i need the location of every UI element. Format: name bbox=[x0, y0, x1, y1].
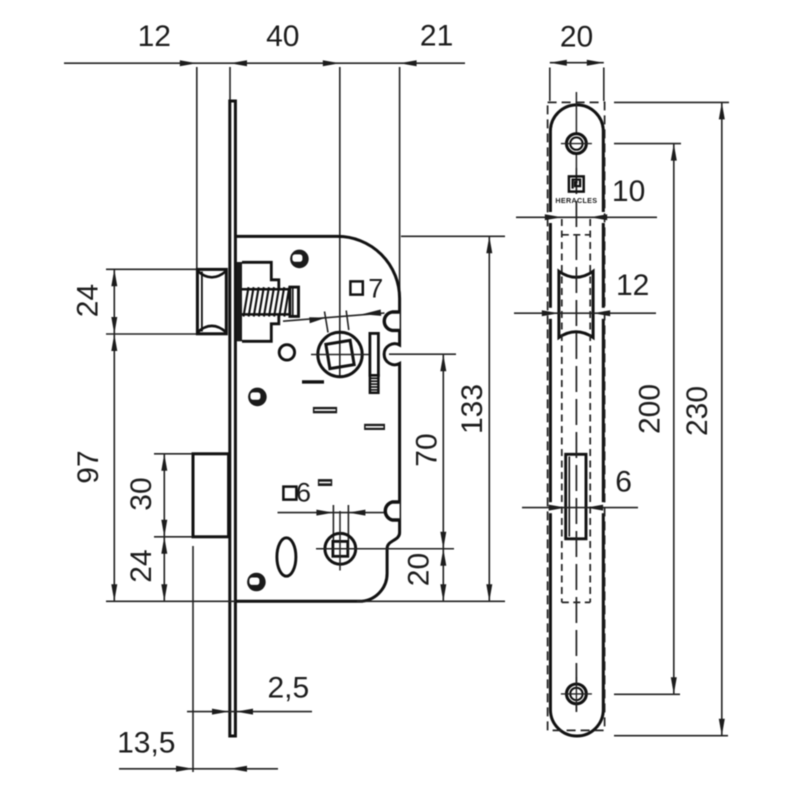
extension case bottom left bbox=[106, 600, 236, 602]
left dims: extension latch top bbox=[106, 268, 196, 270]
svg-text:20: 20 bbox=[403, 553, 436, 586]
svg-text:24: 24 bbox=[125, 549, 158, 582]
screw boss upper on case back bbox=[384, 312, 399, 330]
logo square bbox=[569, 176, 584, 191]
centreline lower spindle horizontal / extension for 70-20 dims bbox=[316, 548, 454, 550]
dim 230 extension bottom bbox=[614, 735, 728, 737]
square-end plate dashed outline bbox=[548, 102, 605, 730]
dim 7 arrow right-pointing bbox=[309, 316, 326, 323]
top screw hole bbox=[567, 134, 587, 154]
extension deadbolt bottom bbox=[154, 536, 192, 538]
bar B bbox=[364, 424, 385, 430]
latch tail bracket bottom bbox=[242, 314, 279, 341]
dim line 70/20 bbox=[442, 354, 444, 601]
label square7 bbox=[350, 281, 362, 294]
dim 7 arrow left-pointing bbox=[362, 309, 381, 317]
latch bolt bbox=[197, 269, 226, 333]
faceplate front outline bbox=[550, 105, 603, 736]
bottom screw hole bbox=[567, 684, 587, 704]
top dimension line 12/40/21 bbox=[64, 62, 465, 64]
label square6 bbox=[283, 487, 296, 500]
pin with spring bbox=[370, 333, 379, 375]
dim 2,5 line bbox=[187, 711, 312, 713]
svg-text:24: 24 bbox=[71, 284, 104, 317]
dim 20 top line bbox=[550, 62, 604, 64]
dim square6 line bbox=[278, 512, 385, 514]
centreline horizontal upper spindle bbox=[311, 354, 371, 356]
svg-text:2,5: 2,5 bbox=[267, 672, 309, 705]
screw hole bottom-left bbox=[247, 573, 266, 592]
mortise slot dashed top bbox=[562, 234, 590, 236]
right dims of left view: extension case top bbox=[401, 235, 505, 237]
bar A bbox=[313, 407, 337, 413]
dim 230 line bbox=[721, 102, 723, 735]
svg-text:70: 70 bbox=[411, 433, 444, 466]
svg-text:13,5: 13,5 bbox=[117, 727, 175, 760]
dim 6 arrow right-pointing bbox=[316, 510, 333, 516]
svg-text:230: 230 bbox=[681, 386, 714, 436]
arrow tip left at case-back line bbox=[400, 60, 417, 66]
bar C bbox=[318, 479, 332, 486]
extension line case back bbox=[399, 67, 401, 299]
dim 7 tilted line bbox=[283, 313, 385, 321]
mortise slot dashed bottom bbox=[562, 601, 590, 603]
dim 10 line bbox=[516, 216, 657, 218]
small circle left of spindle bbox=[279, 345, 294, 360]
dim 6 arrow left-pointing bbox=[348, 510, 365, 516]
centreline lower spindle vertical bbox=[339, 511, 341, 571]
dim 7 tick right bbox=[346, 311, 349, 331]
spindle circle lower bbox=[325, 533, 356, 564]
spindle circle upper bbox=[318, 332, 362, 376]
oval slot bbox=[277, 538, 296, 576]
deadbolt bbox=[193, 454, 229, 537]
latch bolt bottom bevel arc bbox=[197, 326, 226, 333]
lock case outline bbox=[237, 236, 400, 601]
spindle square upper (rotated) bbox=[326, 340, 354, 368]
svg-text:40: 40 bbox=[266, 20, 299, 53]
svg-text:133: 133 bbox=[456, 384, 489, 434]
plate edge gaps at dimension lines bbox=[546, 212, 607, 513]
dim 13,5 extension line bbox=[192, 546, 194, 772]
dim 200 extension bottom bbox=[614, 693, 680, 695]
mortise slot dashed left bbox=[561, 219, 563, 602]
dim 6 tick right bbox=[347, 505, 349, 540]
screw boss lower on case back bbox=[385, 502, 399, 520]
faceplate edge view bbox=[230, 101, 236, 736]
dim line 24/97 bbox=[113, 269, 115, 601]
dim line 133 bbox=[488, 236, 490, 601]
mortise slot dashed right bbox=[589, 219, 591, 602]
latch bolt top bevel arc bbox=[197, 271, 226, 278]
svg-text:6: 6 bbox=[615, 466, 632, 499]
lever line below spindle bbox=[302, 380, 324, 383]
arrow tip right at latch-tip line bbox=[180, 60, 197, 66]
dim 6 line right view bbox=[522, 507, 638, 509]
extension line plate front bbox=[229, 67, 231, 100]
vertical centreline dashed bbox=[575, 168, 577, 712]
spindle square lower bbox=[333, 541, 348, 556]
bolt slot bbox=[566, 454, 586, 539]
extension deadbolt top bbox=[154, 453, 192, 455]
latch spring bottom edge bbox=[242, 313, 290, 316]
svg-text:HERACLES: HERACLES bbox=[555, 196, 597, 205]
dim 230 extension top bbox=[614, 101, 729, 103]
svg-text:30: 30 bbox=[125, 477, 158, 510]
svg-text:21: 21 bbox=[420, 20, 453, 53]
dim 6 tick left bbox=[332, 505, 334, 540]
logo spiral bbox=[573, 180, 581, 189]
dim 7 tick left bbox=[325, 312, 329, 333]
arrow tip left at plate-front line bbox=[230, 60, 247, 66]
arrow tip right at spindle line bbox=[323, 60, 340, 66]
extension line spindle axis bbox=[339, 67, 341, 378]
dim 13,5 line bbox=[119, 768, 278, 770]
latch tail bracket top bbox=[242, 262, 279, 289]
dim 200 line bbox=[673, 144, 675, 695]
latch spring top edge bbox=[242, 288, 290, 291]
extension latch bottom bbox=[106, 333, 196, 335]
screw hole mid-left bbox=[248, 388, 267, 407]
latch spring coil hatch bbox=[244, 287, 290, 316]
dim line 30/24 bbox=[163, 454, 165, 602]
svg-text:200: 200 bbox=[634, 384, 667, 434]
latch opening bbox=[559, 271, 593, 337]
svg-text:20: 20 bbox=[560, 21, 593, 54]
svg-text:6: 6 bbox=[296, 478, 311, 508]
svg-text:12: 12 bbox=[616, 269, 649, 302]
extension case bottom right bbox=[357, 600, 505, 602]
svg-text:12: 12 bbox=[138, 20, 171, 53]
svg-text:97: 97 bbox=[72, 450, 105, 483]
extension line latch tip bbox=[196, 67, 198, 268]
extension spindle axis right bbox=[389, 353, 456, 355]
vertical centreline top solid bbox=[575, 92, 577, 168]
spring cap inner line bbox=[292, 288, 294, 316]
dim 12 line right view bbox=[514, 312, 656, 314]
dim 200 extension top bbox=[614, 143, 681, 145]
svg-text:7: 7 bbox=[368, 274, 383, 304]
latch bolt inner line bbox=[201, 272, 203, 332]
svg-text:10: 10 bbox=[612, 175, 645, 208]
screw hole top-left bbox=[290, 250, 309, 269]
spring cap bbox=[290, 287, 299, 316]
extension lines 20 top bbox=[549, 68, 551, 102]
latch mounting bar bbox=[236, 262, 242, 341]
